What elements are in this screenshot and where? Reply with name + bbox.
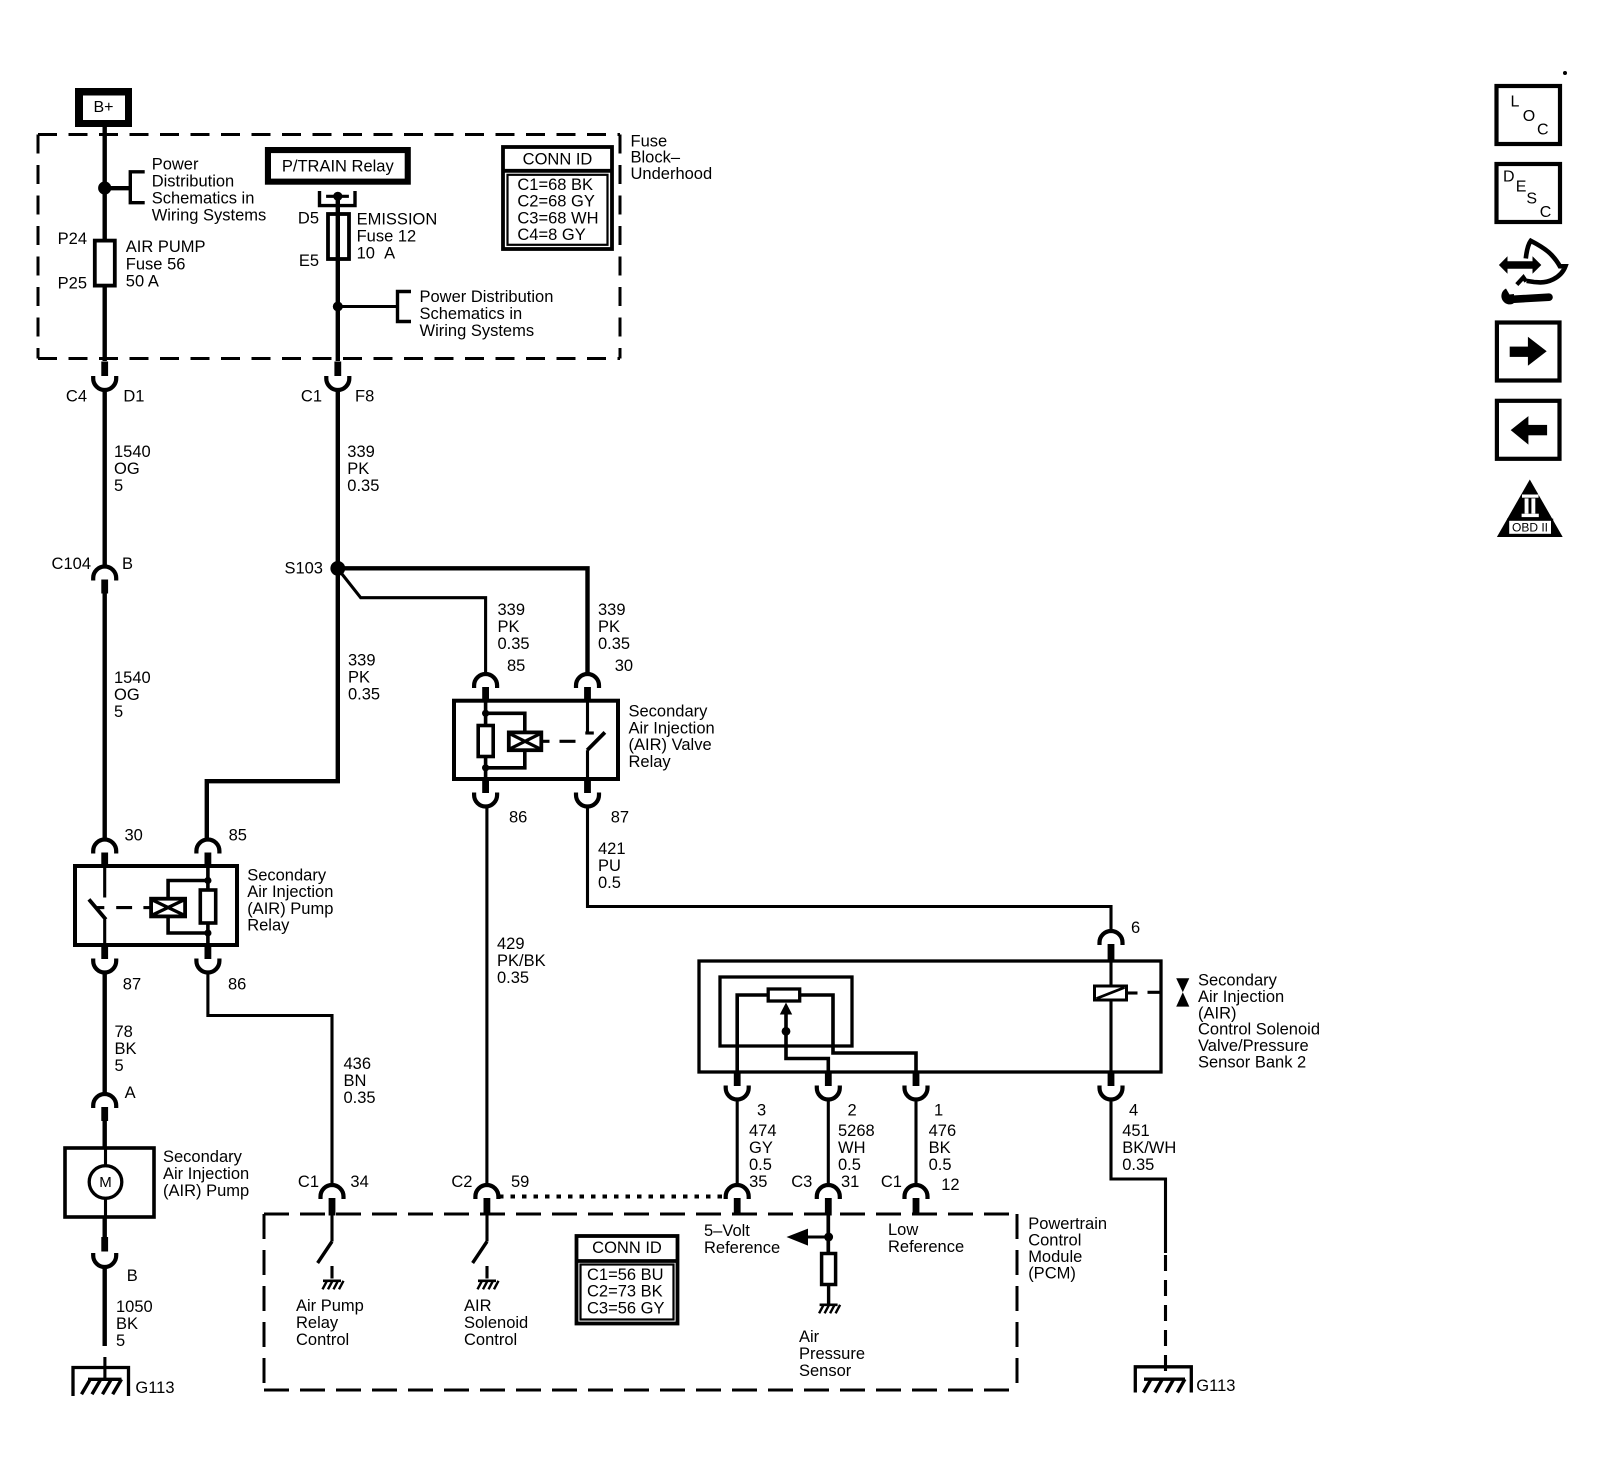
pump relay solenoid parallel branch loop xyxy=(168,881,208,934)
svg-text:476: 476 xyxy=(929,1122,957,1140)
connector PCM pin 12 (dome and pin) xyxy=(905,1185,928,1216)
wire fuse 56 to connector C4 xyxy=(102,286,106,362)
connector sensor pin 3 (pin and cup) xyxy=(726,1072,749,1099)
svg-text:Wiring Systems: Wiring Systems xyxy=(152,207,267,225)
svg-text:436: 436 xyxy=(344,1055,372,1073)
svg-text:0.35: 0.35 xyxy=(347,477,379,495)
svg-text:Secondary: Secondary xyxy=(163,1148,243,1166)
svg-text:85: 85 xyxy=(229,827,247,845)
svg-text:87: 87 xyxy=(123,976,141,994)
svg-text:30: 30 xyxy=(125,827,143,845)
svg-text:E: E xyxy=(1516,179,1527,196)
AIR control solenoid valve / pressure sensor assembly box xyxy=(699,961,1161,1072)
svg-text:Air Injection: Air Injection xyxy=(247,883,333,901)
wire 1540 OG 5 connector C4 to C104 xyxy=(102,390,106,567)
connector solenoid pin 6 (dome and pin) xyxy=(1100,931,1123,961)
wire 429 PK/BK valve relay 86 to PCM connector C2 59 xyxy=(485,807,488,1186)
svg-text:2: 2 xyxy=(848,1102,857,1120)
svg-text:0.5: 0.5 xyxy=(929,1156,952,1174)
svg-text:G113: G113 xyxy=(1196,1377,1235,1395)
svg-text:0.35: 0.35 xyxy=(1122,1156,1154,1174)
connector C1 pin F8 (male pin and cup) xyxy=(326,362,349,391)
valve relay coil (resistor rectangle) xyxy=(478,726,493,757)
label wire 5268 WH 0.5 xyxy=(838,1122,875,1174)
fuse AIR PUMP Fuse 56 50 A xyxy=(95,241,115,286)
svg-text:Air: Air xyxy=(799,1328,820,1346)
svg-text:5: 5 xyxy=(115,1057,124,1075)
pneumatic valve symbol (two triangles) xyxy=(1176,978,1189,1006)
svg-text:Relay: Relay xyxy=(296,1314,339,1332)
wire 436 BN pump relay 86 to PCM connector C1 34 xyxy=(208,973,332,1186)
svg-text:C2=68 GY: C2=68 GY xyxy=(517,193,595,211)
svg-text:A: A xyxy=(125,1084,136,1102)
label wire 1540 OG 5 (upper) xyxy=(114,443,151,495)
svg-text:D1: D1 xyxy=(123,387,144,405)
svg-text:3: 3 xyxy=(757,1102,766,1120)
svg-text:(AIR): (AIR) xyxy=(1198,1004,1237,1022)
svg-text:C1: C1 xyxy=(881,1173,902,1191)
icon OBD II triangle xyxy=(1497,480,1563,538)
label Air Pump Relay Control xyxy=(296,1297,364,1349)
svg-text:C: C xyxy=(1540,204,1552,221)
svg-text:Relay: Relay xyxy=(247,917,290,935)
connector pump relay pin 86 (pin and cup) xyxy=(196,945,219,973)
connector valve relay pin 86 (pin and cup) xyxy=(474,779,497,807)
node junction emission feed xyxy=(333,302,343,312)
label wire 421 PU 0.5 xyxy=(598,840,626,892)
svg-text:CONN ID: CONN ID xyxy=(523,151,593,169)
svg-text:Fuse 12: Fuse 12 xyxy=(357,228,417,246)
svg-text:Solenoid: Solenoid xyxy=(464,1314,528,1332)
CONN ID table (fuse block) xyxy=(503,147,612,249)
svg-text:0.35: 0.35 xyxy=(497,969,529,987)
connector pump relay pin 87 (pin and cup) xyxy=(93,945,116,973)
connector sensor pin 4 (pin and cup) xyxy=(1100,1072,1123,1100)
svg-text:Control: Control xyxy=(296,1331,349,1349)
svg-text:(AIR) Valve: (AIR) Valve xyxy=(629,736,712,754)
svg-text:1: 1 xyxy=(934,1102,943,1120)
svg-text:Reference: Reference xyxy=(704,1239,780,1257)
label wire 339 PK 0.35 (valve relay 30 branch) xyxy=(598,601,630,653)
node junction on B+ feed xyxy=(98,181,111,194)
connector valve relay pin 30 (dome and pin) xyxy=(576,674,599,701)
svg-text:5: 5 xyxy=(116,1332,125,1350)
svg-text:PK: PK xyxy=(498,618,520,636)
P/TRAIN Relay box xyxy=(265,147,411,185)
svg-text:PK/BK: PK/BK xyxy=(497,952,546,970)
svg-text:Air Pump: Air Pump xyxy=(296,1297,364,1315)
air pump relay control driver switch xyxy=(318,1216,332,1279)
label wire 429 PK/BK 0.35 xyxy=(497,935,546,987)
svg-text:5: 5 xyxy=(114,477,123,495)
svg-text:5: 5 xyxy=(114,703,123,721)
connector sensor pin 1 (pin and cup) xyxy=(905,1072,928,1100)
svg-text:0.35: 0.35 xyxy=(598,635,630,653)
svg-text:GY: GY xyxy=(749,1139,773,1157)
svg-text:PK: PK xyxy=(348,669,370,687)
label wire 451 BK/WH 0.35 xyxy=(1122,1122,1176,1174)
AIR solenoid control driver switch xyxy=(473,1216,487,1279)
svg-text:Fuse 56: Fuse 56 xyxy=(126,255,186,273)
connector pump relay pin 85 (dome and pin) xyxy=(196,840,219,867)
icon DESC button xyxy=(1497,164,1561,222)
wire 5268 WH sensor pin 2 to PCM 31 xyxy=(827,1100,830,1186)
svg-text:Secondary: Secondary xyxy=(629,703,709,721)
connector PCM pin 35 (dome and pin) xyxy=(726,1185,749,1215)
svg-text:B: B xyxy=(122,555,133,573)
label Secondary Air Injection (AIR) Valve Relay xyxy=(629,703,715,771)
svg-text:339: 339 xyxy=(498,601,526,619)
svg-text:Sensor: Sensor xyxy=(799,1362,852,1380)
B+ battery feed box xyxy=(75,88,132,127)
svg-text:Control: Control xyxy=(1028,1232,1081,1250)
svg-text:1050: 1050 xyxy=(116,1298,153,1316)
dotted link C2 59 to 35 (same harness) xyxy=(499,1195,726,1199)
label Fuse Block-Underhood xyxy=(631,132,713,183)
svg-text:35: 35 xyxy=(749,1173,767,1191)
svg-text:D5: D5 xyxy=(298,209,319,227)
wire 1050 BK 5 to ground xyxy=(102,1267,106,1347)
svg-text:474: 474 xyxy=(749,1122,777,1140)
pump relay switch contact and blade xyxy=(89,866,106,945)
solenoid coil with diagonal (actuator) xyxy=(1095,961,1127,1072)
pump relay solenoid valve bowtie symbol xyxy=(151,899,185,917)
wire 474 GY sensor pin 3 to PCM 35 xyxy=(736,1100,739,1186)
svg-text:P24: P24 xyxy=(58,230,87,248)
svg-text:BK: BK xyxy=(116,1315,138,1333)
internal ground (AIR solenoid control) xyxy=(478,1281,499,1290)
valve relay solenoid valve bowtie symbol xyxy=(509,732,542,750)
label EMISSION Fuse 12 10 A xyxy=(357,211,438,263)
label wire 476 BK 0.5 xyxy=(929,1122,957,1174)
wire 78 BK 5 pump relay 87 to connector A xyxy=(102,973,106,1095)
valve relay coil leads and junction dots xyxy=(482,701,489,779)
label wire 436 BN 0.35 xyxy=(344,1055,376,1107)
svg-text:1540: 1540 xyxy=(114,443,151,461)
svg-text:0.35: 0.35 xyxy=(498,635,530,653)
wire S103 right branch to AIR valve relay pin 30 xyxy=(338,568,588,674)
svg-text:F8: F8 xyxy=(355,387,374,405)
label wire 339 PK 0.35 (from F8) xyxy=(347,443,379,495)
solenoid actuating dash to valve symbol xyxy=(1127,991,1161,995)
svg-text:(PCM): (PCM) xyxy=(1028,1265,1076,1283)
svg-text:86: 86 xyxy=(228,976,246,994)
svg-text:Block–: Block– xyxy=(631,149,681,167)
svg-text:C3=68 WH: C3=68 WH xyxy=(517,209,598,227)
label Power Distribution Schematics in Wiring Systems (left) xyxy=(152,155,267,224)
label Secondary Air Injection (AIR) Pump xyxy=(163,1148,249,1200)
wire 476 BK sensor pin 1 to PCM 12 xyxy=(914,1100,917,1186)
connector valve relay pin 87 (pin and cup) xyxy=(576,779,599,807)
svg-text:G113: G113 xyxy=(135,1379,174,1397)
svg-text:1540: 1540 xyxy=(114,669,151,687)
svg-text:0.35: 0.35 xyxy=(348,686,380,704)
potentiometer left lead to pin 3 xyxy=(737,995,768,1072)
wire dashed continuation to ground G113 (right) xyxy=(1164,1255,1167,1371)
potentiometer wiper arrow and lead to pin 2 xyxy=(780,1003,829,1073)
svg-text:Secondary: Secondary xyxy=(1198,972,1278,990)
svg-text:C1=68 BK: C1=68 BK xyxy=(517,176,593,194)
wire relay terminal to fuse 12 xyxy=(336,196,340,214)
pump relay coil (resistor rectangle) xyxy=(200,890,215,923)
svg-text:AIR PUMP: AIR PUMP xyxy=(126,238,206,256)
svg-text:BK/WH: BK/WH xyxy=(1122,1139,1176,1157)
svg-text:C1=56 BU: C1=56 BU xyxy=(587,1266,664,1284)
svg-text:PU: PU xyxy=(598,857,621,875)
svg-text:Underhood: Underhood xyxy=(631,165,713,183)
svg-text:5268: 5268 xyxy=(838,1122,875,1140)
svg-text:Valve/Pressure: Valve/Pressure xyxy=(1198,1037,1309,1055)
5 volt reference arrow xyxy=(787,1229,830,1246)
label wire 339 PK 0.35 (trunk below S103) xyxy=(348,652,380,704)
label AIR PUMP Fuse 56 50 A xyxy=(126,238,206,290)
label 5-Volt Reference xyxy=(704,1222,780,1257)
svg-text:WH: WH xyxy=(838,1139,866,1157)
wire S103 diagonal branch to AIR valve relay pin 85 xyxy=(340,572,486,675)
connector C4 pin D1 (male pin and cup) xyxy=(93,362,116,391)
svg-text:B+: B+ xyxy=(93,99,113,116)
svg-text:C: C xyxy=(1537,121,1549,138)
svg-text:Air Injection: Air Injection xyxy=(629,719,715,737)
svg-text:C3: C3 xyxy=(791,1173,812,1191)
label Secondary Air Injection (AIR) Control Solenoid Valve/Pressure Sensor Bank 2 xyxy=(1198,972,1320,1072)
wire branch to power distribution bracket xyxy=(105,186,130,190)
svg-text:P/TRAIN Relay: P/TRAIN Relay xyxy=(282,157,395,175)
wire 1540 OG 5 C104 to pump relay pin 30 xyxy=(102,594,106,840)
valve relay switch contact and blade xyxy=(585,701,605,779)
svg-text:BN: BN xyxy=(344,1072,367,1090)
icon LOC button xyxy=(1497,86,1561,144)
svg-text:Relay: Relay xyxy=(629,753,672,771)
svg-text:6: 6 xyxy=(1131,919,1140,937)
svg-text:S103: S103 xyxy=(284,559,323,577)
motor M1 Secondary Air Injection (AIR) Pump box xyxy=(65,1148,154,1217)
svg-text:86: 86 xyxy=(509,809,527,827)
svg-text:34: 34 xyxy=(350,1173,368,1191)
label wire 339 PK 0.35 (valve relay 85 branch) xyxy=(498,601,530,653)
svg-text:339: 339 xyxy=(347,443,375,461)
svg-text:B: B xyxy=(127,1267,138,1285)
connector valve relay pin 85 (dome and pin) xyxy=(474,674,497,701)
svg-text:421: 421 xyxy=(598,840,626,858)
svg-text:4: 4 xyxy=(1129,1102,1138,1120)
label Power Distribution Schematics in Wiring Systems (right) xyxy=(420,288,554,340)
connector pin A of AIR pump (dome and pin) xyxy=(93,1094,116,1121)
bracket power distribution (left) xyxy=(130,172,144,203)
connector PCM pin 34 (dome and pin) xyxy=(321,1185,344,1216)
svg-text:(AIR) Pump: (AIR) Pump xyxy=(163,1182,249,1200)
potentiometer element xyxy=(768,989,800,1001)
label wire 474 GY 0.5 xyxy=(749,1122,777,1174)
icon forward arrow button xyxy=(1497,323,1560,381)
svg-text:D: D xyxy=(1503,168,1515,185)
svg-text:Reference: Reference xyxy=(888,1238,964,1256)
svg-text:Fuse: Fuse xyxy=(631,132,668,150)
svg-text:31: 31 xyxy=(841,1173,859,1191)
splice S103 junction dot xyxy=(330,561,345,576)
svg-text:C2=73 BK: C2=73 BK xyxy=(587,1283,663,1301)
svg-text:AIR: AIR xyxy=(464,1297,492,1315)
svg-text:Power: Power xyxy=(152,155,199,173)
icon vehicle repair (arrow, hook, wrench) xyxy=(1499,241,1566,305)
fuse block underhood dashed box xyxy=(38,135,620,359)
svg-text:50 A: 50 A xyxy=(126,272,159,290)
wire 339 PK connector C1 to S103 xyxy=(336,390,340,569)
wire S103 trunk down and left to AIR pump relay pin 85 xyxy=(207,568,338,839)
svg-text:EMISSION: EMISSION xyxy=(357,211,438,229)
internal ground (air pressure sensor) xyxy=(819,1305,840,1314)
svg-text:Control Solenoid: Control Solenoid xyxy=(1198,1021,1320,1039)
wire branch to power distribution bracket (right) xyxy=(338,305,398,308)
pull-up resistor (air pressure sensor input) xyxy=(822,1254,836,1285)
svg-text:5–Volt: 5–Volt xyxy=(704,1222,750,1240)
wire motor to connector B xyxy=(102,1217,106,1237)
svg-text:Power Distribution: Power Distribution xyxy=(420,288,554,306)
label Secondary Air Injection (AIR) Pump Relay xyxy=(247,866,333,934)
svg-text:10 A: 10 A xyxy=(357,245,396,263)
svg-text:451: 451 xyxy=(1122,1122,1150,1140)
svg-text:OBD II: OBD II xyxy=(1512,521,1548,535)
relay K1 Secondary Air Injection (AIR) Pump Relay box xyxy=(75,866,237,945)
label Low Reference xyxy=(888,1221,964,1256)
valve relay actuating dash line xyxy=(541,740,575,743)
connector pump relay pin 30 (dome and pin) xyxy=(93,840,116,867)
wire resistor to internal ground xyxy=(827,1285,830,1304)
svg-text:Distribution: Distribution xyxy=(152,172,235,190)
svg-text:30: 30 xyxy=(615,657,633,675)
svg-text:Schematics in: Schematics in xyxy=(152,190,255,208)
pressure sensor inner box xyxy=(720,977,852,1046)
svg-text:O: O xyxy=(1523,108,1535,125)
label AIR Solenoid Control xyxy=(464,1297,528,1349)
wire 421 PU valve relay 87 to solenoid pin 6 xyxy=(588,807,1112,932)
svg-text:OG: OG xyxy=(114,686,140,704)
wire fuse 12 to connector C1 xyxy=(336,259,340,361)
svg-text:P25: P25 xyxy=(58,275,87,293)
pump relay coil leads and junction dots xyxy=(204,866,211,945)
svg-text:Wiring Systems: Wiring Systems xyxy=(420,322,535,340)
svg-text:Pressure: Pressure xyxy=(799,1345,865,1363)
label wire 1540 OG 5 (lower) xyxy=(114,669,151,721)
svg-text:C4: C4 xyxy=(66,387,87,405)
air pressure sensor input node xyxy=(824,1216,833,1254)
label Air Pressure Sensor xyxy=(799,1328,865,1380)
wire 451 BK/WH sensor pin 4 to ground xyxy=(1111,1100,1166,1254)
connector C104 pin B (dome and pin) xyxy=(93,567,116,594)
relay K2 Secondary Air Injection (AIR) Valve Relay box xyxy=(454,701,618,779)
svg-text:PK: PK xyxy=(598,618,620,636)
svg-text:78: 78 xyxy=(115,1023,133,1041)
svg-text:E5: E5 xyxy=(299,252,319,270)
stray printed dot artifact xyxy=(1563,71,1567,75)
label wire 78 BK 5 xyxy=(115,1023,137,1075)
svg-text:Powertrain: Powertrain xyxy=(1028,1215,1107,1233)
svg-text:59: 59 xyxy=(511,1173,529,1191)
wire connector A to motor xyxy=(102,1121,106,1148)
CONN ID table (PCM) xyxy=(577,1236,678,1324)
svg-text:L: L xyxy=(1511,94,1520,111)
svg-text:Secondary: Secondary xyxy=(247,866,327,884)
svg-text:BK: BK xyxy=(929,1139,951,1157)
svg-text:S: S xyxy=(1526,190,1537,207)
svg-text:429: 429 xyxy=(497,935,525,953)
pump relay actuating dash line xyxy=(96,906,151,909)
svg-text:BK: BK xyxy=(115,1040,137,1058)
svg-text:CONN ID: CONN ID xyxy=(592,1239,662,1257)
svg-text:C3=56 GY: C3=56 GY xyxy=(587,1299,665,1317)
svg-text:Control: Control xyxy=(464,1331,517,1349)
svg-text:Low: Low xyxy=(888,1221,918,1239)
svg-text:C1: C1 xyxy=(298,1173,319,1191)
ground G113 (right) xyxy=(1135,1367,1191,1393)
connector PCM pin 31 (dome and pin) xyxy=(817,1185,840,1216)
potentiometer right lead to pin 1 xyxy=(800,995,916,1072)
svg-text:0.5: 0.5 xyxy=(598,874,621,892)
internal ground (air pump relay control) xyxy=(323,1281,344,1290)
svg-text:C104: C104 xyxy=(52,555,91,573)
svg-text:Air Injection: Air Injection xyxy=(163,1165,249,1183)
label wire 1050 BK 5 xyxy=(116,1298,153,1350)
svg-text:0.5: 0.5 xyxy=(838,1156,861,1174)
wire B+ down to fuse 56 xyxy=(102,127,106,242)
svg-text:339: 339 xyxy=(598,601,626,619)
svg-text:PK: PK xyxy=(347,460,369,478)
svg-text:0.5: 0.5 xyxy=(749,1156,772,1174)
connector PCM pin 59 (dome and pin) xyxy=(475,1185,498,1216)
svg-text:OG: OG xyxy=(114,460,140,478)
fuse EMISSION Fuse 12 10 A xyxy=(328,214,349,259)
svg-text:Sensor Bank 2: Sensor Bank 2 xyxy=(1198,1054,1306,1072)
connector sensor pin 2 (pin and cup) xyxy=(817,1072,840,1100)
svg-text:0.35: 0.35 xyxy=(344,1089,376,1107)
svg-text:85: 85 xyxy=(507,657,525,675)
ground G113 (left) xyxy=(73,1357,129,1396)
svg-text:C2: C2 xyxy=(451,1173,472,1191)
svg-text:C1: C1 xyxy=(301,387,322,405)
PCM dashed box xyxy=(264,1214,1017,1390)
svg-text:87: 87 xyxy=(611,809,629,827)
valve relay solenoid parallel branch loop xyxy=(486,713,525,768)
svg-text:Air Injection: Air Injection xyxy=(1198,988,1284,1006)
relay terminal bracket under P/TRAIN relay xyxy=(320,191,356,206)
svg-text:12: 12 xyxy=(941,1176,959,1194)
svg-text:C4=8 GY: C4=8 GY xyxy=(517,226,585,244)
connector pin B of AIR pump (pin and cup) xyxy=(93,1237,116,1267)
svg-text:(AIR) Pump: (AIR) Pump xyxy=(247,900,333,918)
svg-text:339: 339 xyxy=(348,652,376,670)
bracket power distribution (right) xyxy=(398,292,412,322)
svg-text:Module: Module xyxy=(1028,1248,1082,1266)
icon back arrow button xyxy=(1497,401,1560,459)
svg-text:Schematics in: Schematics in xyxy=(420,305,523,323)
label Powertrain Control Module (PCM) xyxy=(1028,1215,1107,1283)
svg-text:M: M xyxy=(99,1174,112,1191)
